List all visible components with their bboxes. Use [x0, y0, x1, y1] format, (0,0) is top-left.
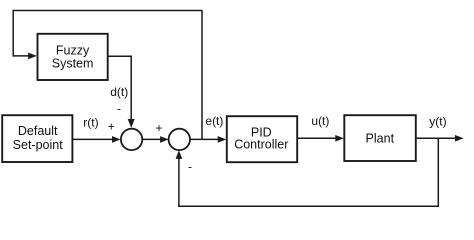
wire: d(t) vertical down to summing junction S1: [130, 56, 132, 121]
arrowhead output: [455, 135, 464, 142]
summing junction S2: [169, 129, 190, 150]
wire: into fuzzy system input: [13, 55, 30, 57]
arrowhead into fuzzy system: [28, 53, 37, 60]
wire: S2 to PID controller: [190, 138, 219, 140]
block: PID Controller: [227, 116, 297, 162]
svg-text:+: +: [108, 119, 115, 133]
wire: S1 to S2: [142, 138, 160, 140]
svg-text:r(t): r(t): [83, 115, 98, 129]
svg-text:-: -: [117, 102, 121, 116]
svg-text:d(t): d(t): [110, 85, 128, 99]
block: Fuzzy System U1: [38, 34, 108, 80]
arrowhead into PID controller: [218, 136, 227, 143]
arrowhead into S2: [160, 136, 169, 143]
svg-text:Set-point: Set-point: [13, 138, 64, 152]
svg-text:-: -: [188, 160, 192, 174]
block: Default Set-point: [2, 115, 72, 162]
svg-text:u(t): u(t): [311, 114, 329, 128]
wire: u(t) from PID to plant: [297, 137, 336, 139]
svg-text:Plant: Plant: [366, 132, 395, 146]
wire: fuzzy output horizontal: [108, 55, 132, 57]
wire: feedback vertical from output tap: [437, 138, 439, 207]
arrowhead into plant: [335, 135, 344, 142]
svg-text:Controller: Controller: [234, 138, 288, 152]
wire: e(t) tap up from main line: [201, 11, 203, 140]
svg-text:y(t): y(t): [429, 114, 446, 128]
wire: top feedback horizontal: [13, 10, 203, 12]
arrowhead d(t) into S1: [128, 119, 135, 128]
wire: feedback bottom horizontal: [178, 205, 439, 207]
wire: left feedback vertical: [12, 10, 14, 57]
svg-text:e(t): e(t): [205, 114, 223, 128]
svg-text:System: System: [52, 57, 94, 71]
svg-text:Default: Default: [18, 124, 58, 138]
wire: r(t) from set-point to S1: [72, 138, 112, 140]
block: Plant: [344, 115, 416, 161]
wire: feedback vertical up into S2: [178, 158, 180, 207]
wire: y(t) output: [416, 137, 455, 139]
arrowhead feedback into S2 bottom: [176, 150, 183, 159]
arrowhead r(t) into S1: [112, 136, 121, 143]
svg-text:+: +: [155, 121, 162, 135]
svg-text:Fuzzy: Fuzzy: [56, 43, 90, 57]
summing junction S1: [121, 129, 142, 150]
